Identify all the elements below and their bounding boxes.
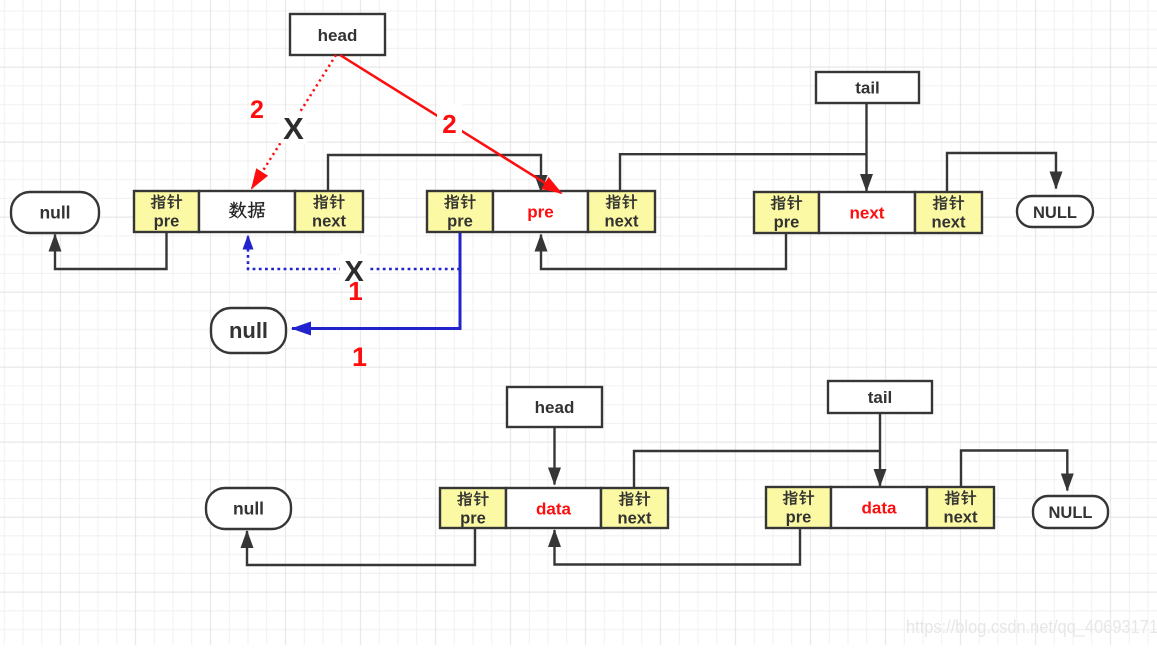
cell pointer-pre — [754, 192, 819, 233]
svg-text:null: null — [233, 499, 264, 519]
wire node1.next -> node2.data — [328, 155, 541, 192]
cell pointer-next — [927, 487, 994, 528]
wire node1.pre -> null1 — [55, 233, 167, 269]
cell data — [819, 192, 915, 233]
svg-text:2: 2 — [442, 109, 456, 139]
svg-text:pre: pre — [774, 214, 800, 232]
svg-text:data: data — [862, 499, 898, 518]
svg-text:head: head — [318, 26, 358, 45]
cell pointer-next — [588, 191, 655, 232]
svg-text:NULL: NULL — [1049, 504, 1093, 522]
svg-text:null: null — [39, 203, 70, 223]
wire node2.next -> node3.data — [620, 154, 866, 191]
rounded null3 — [206, 488, 291, 529]
cell data — [493, 191, 588, 232]
wire nodeA.next -> nodeB.data — [634, 451, 880, 488]
svg-text:1: 1 — [352, 342, 367, 372]
cell pointer-next — [295, 191, 363, 232]
wire tail1 -> node3.data — [865, 103, 867, 191]
cell pointer-pre — [766, 487, 831, 528]
label X1 — [279, 111, 307, 146]
svg-text:pre: pre — [154, 213, 180, 231]
svg-text:tail: tail — [855, 79, 880, 98]
wire nodeB.pre -> nodeA.data — [555, 528, 801, 565]
wire tail2 -> nodeB.data — [879, 413, 881, 486]
wire node3.next -> NULL1 — [947, 153, 1056, 192]
svg-text:next: next — [932, 214, 966, 232]
svg-text:pre: pre — [527, 203, 553, 222]
nodeA — [440, 488, 668, 528]
label X2 — [340, 254, 367, 288]
cell data — [506, 488, 601, 528]
svg-text:next: next — [944, 509, 978, 527]
box head1 — [290, 14, 385, 55]
node3 — [754, 192, 982, 233]
node2 — [427, 191, 655, 232]
cell data — [831, 487, 927, 528]
wire nodeB.next -> NULL2 — [961, 451, 1067, 491]
box head2 — [507, 387, 602, 427]
box tail1 — [816, 72, 919, 103]
svg-text:pre: pre — [786, 509, 812, 527]
svg-text:pre: pre — [447, 213, 473, 231]
cell pointer-pre — [427, 191, 493, 232]
svg-text:2: 2 — [250, 96, 264, 124]
blue solid arrow node2.pre -> null2 — [292, 233, 460, 329]
svg-text:data: data — [536, 500, 572, 519]
svg-text:next: next — [850, 204, 885, 223]
blue dotted arrow -> node1.data — [248, 236, 460, 270]
wire head2 -> nodeA.data — [553, 427, 555, 485]
cell pointer-pre — [134, 191, 199, 232]
svg-text:tail: tail — [868, 388, 893, 407]
wire node3.pre -> node2.data — [541, 233, 786, 269]
svg-text:https://blog.csdn.net/qq_40693: https://blog.csdn.net/qq_40693171 — [906, 616, 1157, 638]
svg-text:1: 1 — [348, 276, 362, 306]
rounded NULL2 — [1033, 496, 1108, 528]
box tail2 — [828, 381, 932, 413]
svg-text:next: next — [618, 510, 652, 528]
wire nodeA.pre -> null3 — [247, 528, 475, 565]
svg-text:X: X — [283, 111, 304, 146]
svg-text:pre: pre — [460, 510, 486, 528]
svg-text:NULL: NULL — [1033, 204, 1077, 222]
svg-text:next: next — [605, 213, 639, 231]
cell pointer-pre — [440, 488, 506, 528]
cell pointer-next — [601, 488, 668, 528]
cell data — [199, 191, 295, 232]
node1 — [134, 191, 363, 232]
svg-text:null: null — [229, 318, 268, 343]
cell pointer-next — [915, 192, 982, 233]
red dotted arrow head1 -> node1.data — [252, 55, 336, 188]
nodeB — [766, 487, 994, 528]
rounded NULL1 — [1017, 196, 1093, 227]
rounded null1 — [11, 192, 99, 233]
rounded null2 — [211, 308, 286, 353]
red solid arrow head1 -> node2.data — [340, 55, 561, 193]
svg-text:head: head — [535, 398, 575, 417]
svg-text:next: next — [312, 213, 346, 231]
